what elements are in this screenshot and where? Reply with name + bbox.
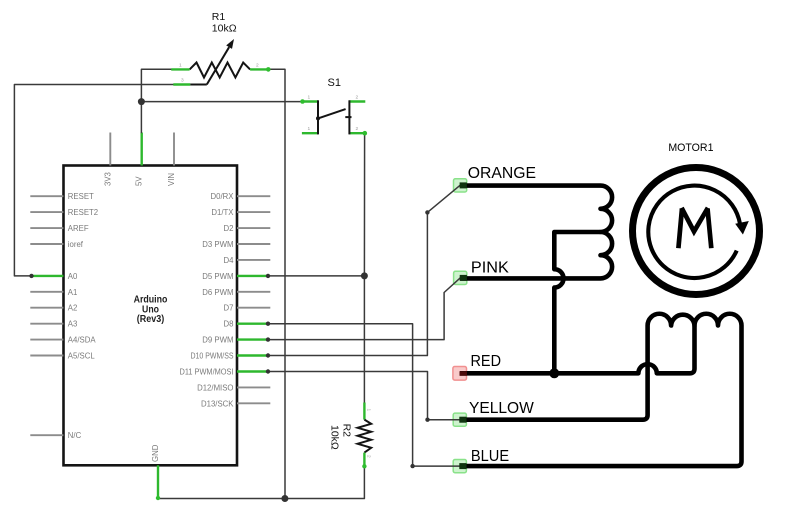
resistor R2 pin1 stub: [363, 403, 365, 420]
svg-text:1: 1: [366, 409, 372, 412]
svg-text:ORANGE: ORANGE: [468, 165, 536, 182]
terminal: ORANGE pad highlight: [454, 179, 467, 192]
svg-text:GND: GND: [151, 444, 160, 462]
node: YELLOW corner endpoint: [425, 418, 429, 422]
svg-text:R1: R1: [212, 11, 226, 23]
junction: GND / R1 pin2 dot: [281, 495, 288, 502]
switch S1 actuator lever: [318, 109, 346, 118]
Arduino U1 pin 5V stub (connected, green): [140, 133, 142, 166]
svg-text:ioref: ioref: [68, 240, 84, 249]
node: ORANGE diagonal corner: [425, 210, 429, 214]
svg-text:(Rev3): (Rev3): [137, 314, 165, 325]
potentiometer R1 wiper arrow shaft: [207, 47, 229, 84]
svg-text:2: 2: [256, 63, 259, 69]
svg-text:RESET2: RESET2: [68, 208, 98, 217]
Arduino U1 top pin stubs 3V3 VIN (unconnected): [110, 133, 174, 166]
motor MOTOR1 rotation arrow arc: [648, 186, 740, 278]
wire: thick YELLOW wire up into stepper coil B and down to BLUE: [460, 314, 742, 466]
svg-text:1: 1: [308, 126, 311, 132]
wire: junction down to R2 pin1: [363, 276, 365, 403]
svg-text:D9 PWM: D9 PWM: [202, 336, 233, 345]
svg-text:S1: S1: [328, 77, 341, 89]
svg-text:A4/SDA: A4/SDA: [68, 336, 97, 345]
wire: D9 to PINK terminal: [268, 278, 460, 340]
svg-text:D4: D4: [224, 256, 235, 265]
potentiometer R1 pin2 stub: [250, 68, 269, 70]
wire: thick RED wire with hop over coil-B leg, up to coil B center: [460, 326, 695, 374]
svg-text:MOTOR1: MOTOR1: [668, 142, 713, 154]
terminal: PINK pad highlight: [454, 271, 467, 284]
svg-text:D3 PWM: D3 PWM: [202, 240, 233, 249]
wire: S1 pin2 down to D5: [363, 133, 365, 276]
svg-text:VIN: VIN: [167, 173, 176, 186]
svg-text:2: 2: [366, 455, 372, 458]
svg-text:D13/SCK: D13/SCK: [201, 399, 234, 408]
svg-text:2: 2: [356, 126, 359, 132]
wire: D5 to junction: [268, 275, 364, 277]
Arduino U1 right pin stubs (unconnected): [237, 196, 270, 403]
wire: thick ORANGE wire into stepper coil A (top): [460, 186, 612, 279]
svg-text:3: 3: [181, 78, 184, 84]
switch S1 pin1 bottom stub: [302, 132, 318, 134]
potentiometer R1 pin numbers: [179, 63, 259, 84]
svg-text:3V3: 3V3: [103, 172, 112, 186]
junction: RED / coil A center tap dot: [549, 368, 559, 378]
Arduino U1 left pin stubs (unconnected): [30, 196, 63, 435]
svg-text:YELLOW: YELLOW: [469, 400, 535, 417]
Arduino U1 pin A0 stub (connected, green): [32, 275, 64, 277]
svg-text:D12/MISO: D12/MISO: [197, 383, 233, 392]
terminal: PINK pin: [460, 275, 467, 281]
terminal: YELLOW pad highlight: [453, 413, 466, 426]
Arduino U1 right pin labels: [180, 192, 235, 408]
terminal: BLUE pad highlight: [453, 460, 466, 473]
svg-text:D7: D7: [224, 304, 234, 313]
switch S1 lever pivot nub: [316, 116, 320, 120]
svg-text:PINK: PINK: [471, 259, 509, 276]
node: GND wire endpoint (green): [156, 496, 160, 500]
svg-text:D2: D2: [224, 224, 234, 233]
motor MOTOR1 outer circle: [633, 168, 760, 295]
svg-text:D11 PWM/MOSI: D11 PWM/MOSI: [180, 368, 234, 377]
svg-text:1: 1: [179, 63, 182, 69]
terminal: RED pin: [460, 371, 467, 376]
resistor R2 pin2 stub: [363, 453, 365, 467]
resistor R2 pin numbers (rotated): [366, 409, 372, 459]
Arduino U1 left pin labels: [68, 192, 98, 440]
resistor R2 value label (rotated): [329, 424, 353, 450]
svg-text:N/C: N/C: [68, 431, 82, 440]
node: D9 wire endpoint: [266, 337, 270, 341]
node: R1 pin2 wire endpoint (green): [266, 67, 271, 72]
Arduino U1 body: [64, 166, 238, 466]
junction: 5V node dot: [138, 98, 145, 105]
terminal: ORANGE pin: [460, 182, 467, 188]
switch S1 pin numbers: [308, 95, 359, 133]
svg-text:D8: D8: [224, 320, 234, 329]
switch S1 pin1 top stub: [302, 100, 318, 102]
svg-text:A0: A0: [68, 272, 78, 281]
motor MOTOR1 letter M: [678, 209, 682, 249]
wire: coil A center tap down to RED junction (with hop over PINK): [554, 232, 600, 373]
wire: R1 wiper to A0 (left loop): [14, 85, 173, 276]
svg-text:A5/SCL: A5/SCL: [68, 352, 96, 361]
Arduino U1 pin GND stub (connected, green): [157, 465, 159, 498]
svg-text:D0/RX: D0/RX: [211, 192, 235, 201]
svg-text:RESET: RESET: [68, 192, 94, 201]
svg-text:RED: RED: [471, 353, 502, 370]
svg-text:D1/TX: D1/TX: [211, 208, 234, 217]
Arduino U1 right pin stubs D5 D8 D9 D10 D11 (connected, green): [237, 276, 268, 372]
motor MOTOR1 rotation arrowhead: [735, 221, 749, 235]
svg-text:2: 2: [356, 95, 359, 101]
terminal: RED pad highlight (unconnected): [453, 367, 467, 381]
svg-text:10kΩ: 10kΩ: [212, 22, 237, 34]
potentiometer R1 zigzag: [190, 63, 251, 78]
svg-text:D5 PWM: D5 PWM: [202, 272, 233, 281]
node: R2 pin2 wire endpoint (green): [362, 464, 366, 468]
switch S1 left post: [317, 100, 319, 134]
Arduino U1 top pin labels 3V3 5V VIN (rotated): [103, 172, 176, 186]
svg-text:A3: A3: [68, 320, 78, 329]
svg-text:A2: A2: [68, 304, 78, 313]
potentiometer R1 wiper arrowhead: [226, 39, 234, 49]
junction: D5 / S1 / R2 dot: [361, 272, 368, 279]
svg-text:D6 PWM: D6 PWM: [202, 288, 233, 297]
switch S1 right post: [348, 100, 350, 134]
node: D5 pin wire endpoint: [266, 274, 270, 278]
Arduino U1 part label: [134, 294, 168, 325]
svg-text:R2: R2: [341, 424, 353, 438]
switch S1 pin2 bottom stub: [349, 132, 365, 134]
resistor R2 zigzag: [358, 420, 372, 453]
switch S1 pin2 top stub: [349, 100, 365, 102]
potentiometer R1 value label: [212, 11, 237, 34]
node: D10 wire endpoint: [266, 353, 270, 357]
node: D11 wire endpoint: [266, 369, 270, 373]
wire: D11 to YELLOW terminal: [268, 372, 461, 420]
potentiometer R1 wiper stub: [173, 83, 190, 85]
node: D8 wire endpoint: [266, 322, 270, 326]
terminal: YELLOW pin: [459, 417, 466, 423]
node: BLUE corner endpoint: [410, 464, 414, 468]
node: A0 wire endpoint: [29, 274, 33, 278]
potentiometer R1 wiper lead: [190, 84, 207, 86]
wire: 5V junction to S1 pin1: [141, 101, 302, 103]
wire: D8 to BLUE terminal: [268, 324, 461, 466]
node: S1 pin1 wire endpoint (green): [300, 99, 305, 104]
wire: D10 to ORANGE terminal: [268, 185, 460, 355]
wire: GND bottom rail: [158, 467, 364, 499]
potentiometer R1 pin1 stub: [171, 68, 189, 70]
svg-text:BLUE: BLUE: [471, 448, 509, 465]
svg-text:A1: A1: [68, 288, 78, 297]
svg-text:10kΩ: 10kΩ: [329, 425, 341, 450]
svg-text:5V: 5V: [135, 176, 144, 186]
terminal: BLUE pin: [459, 463, 466, 469]
svg-text:D10 PWM/SS: D10 PWM/SS: [191, 352, 234, 361]
wire: 5V up to R1 corner: [141, 69, 171, 132]
wire: R1 pin2 down to GND rail: [269, 69, 285, 498]
svg-text:1: 1: [308, 95, 311, 101]
node: S1 pin2 wire endpoint (green): [363, 131, 368, 136]
svg-text:AREF: AREF: [68, 224, 89, 233]
switch S1 actuator tick: [345, 116, 351, 118]
